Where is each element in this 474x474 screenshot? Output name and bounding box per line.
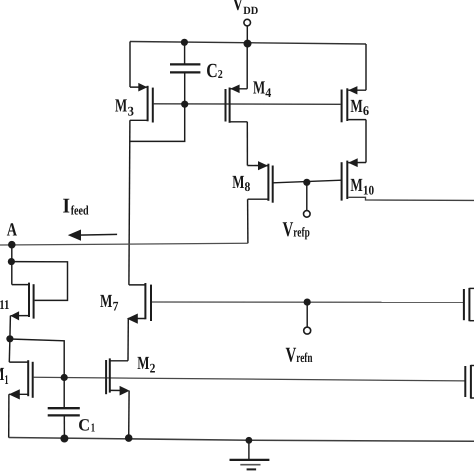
svg-text:V: V xyxy=(286,342,297,366)
svg-text:M: M xyxy=(232,173,244,193)
svg-text:I: I xyxy=(63,193,71,217)
svg-text:feed: feed xyxy=(71,203,90,218)
capacitor C2 xyxy=(170,42,200,104)
svg-text:M: M xyxy=(350,176,362,196)
svg-text:4: 4 xyxy=(265,85,271,100)
transistor M4 xyxy=(226,44,248,166)
svg-text:2: 2 xyxy=(150,360,156,375)
svg-text:refp: refp xyxy=(293,225,310,240)
wire M3 drain to M7 xyxy=(129,120,130,285)
wire Vrefn stem xyxy=(306,302,308,327)
label Vrefn xyxy=(286,342,313,366)
svg-text:A: A xyxy=(7,221,18,241)
wire gate-drain tie xyxy=(130,104,185,141)
wire node A horizontal xyxy=(0,243,248,245)
node C1 bottom junction xyxy=(60,435,68,443)
terminal Vrefn xyxy=(304,327,311,334)
svg-text:M: M xyxy=(137,354,149,374)
svg-text:3: 3 xyxy=(128,103,135,118)
ground xyxy=(230,440,270,469)
svg-text:C: C xyxy=(78,416,90,435)
node C1 junction xyxy=(61,374,68,381)
svg-text:C: C xyxy=(206,60,218,82)
svg-text:refn: refn xyxy=(296,350,313,365)
svg-text:M: M xyxy=(350,97,362,117)
svg-text:1: 1 xyxy=(4,372,8,387)
node Vrefn junction xyxy=(304,299,311,306)
wire M11 source to gate node xyxy=(10,339,64,378)
label A xyxy=(7,221,18,241)
label M7 xyxy=(100,292,119,313)
svg-text:M: M xyxy=(115,97,127,117)
transistor M7 xyxy=(127,283,151,361)
node VDD rail junction xyxy=(244,40,252,48)
label M8 xyxy=(232,173,250,194)
label M10 xyxy=(350,176,374,198)
label M6 xyxy=(350,97,369,118)
transistor M1 xyxy=(9,339,33,438)
label M2 xyxy=(137,354,155,375)
svg-text:7: 7 xyxy=(113,298,119,313)
svg-text:DD: DD xyxy=(243,5,258,17)
node M11 source junction xyxy=(6,335,13,342)
label Ifeed xyxy=(63,193,90,217)
svg-text:2: 2 xyxy=(218,67,223,81)
capacitor C1 xyxy=(48,378,80,439)
wire Vrefp stem xyxy=(306,182,308,210)
svg-text:1: 1 xyxy=(91,420,95,434)
label VDD xyxy=(233,0,259,17)
wire bottom rail xyxy=(9,438,474,442)
transistor M11 xyxy=(10,283,34,339)
terminal VDD xyxy=(244,19,251,26)
label M4 xyxy=(253,79,272,101)
node gate bus junction xyxy=(181,101,188,108)
transistor right bottom (partial) xyxy=(465,365,474,399)
label C2 xyxy=(206,60,223,82)
transistor right top (partial) xyxy=(464,288,474,321)
terminal Vrefp xyxy=(304,211,311,218)
transistor M10 xyxy=(342,158,474,200)
node C2 rail junction xyxy=(181,39,188,46)
wire VDD top rail xyxy=(130,42,366,45)
transistor M6 xyxy=(342,44,366,163)
wire gate bus M3-M4-M6 xyxy=(154,103,341,106)
node M2 source junction xyxy=(125,434,133,442)
svg-text:8: 8 xyxy=(245,179,251,194)
wire A vertical xyxy=(11,245,13,285)
wire M11 gate loop xyxy=(12,262,68,301)
node ground junction xyxy=(246,437,253,444)
node Vrefp junction xyxy=(303,179,310,186)
label Vrefp xyxy=(283,217,310,241)
node A xyxy=(8,241,16,249)
wire M7 gate bus xyxy=(152,301,464,303)
svg-text:M: M xyxy=(253,79,265,99)
label M3 xyxy=(115,97,134,119)
label M1 xyxy=(0,365,9,387)
svg-text:11: 11 xyxy=(0,297,9,312)
label M11 xyxy=(0,290,9,312)
svg-text:V: V xyxy=(233,0,244,15)
svg-text:M: M xyxy=(100,292,112,312)
wire gate bus M1-M2-right xyxy=(34,377,465,381)
svg-text:V: V xyxy=(283,217,294,241)
wire VDD stem xyxy=(246,26,248,44)
arrow Ifeed xyxy=(68,230,117,241)
svg-text:6: 6 xyxy=(363,103,370,118)
label C1 xyxy=(78,416,95,435)
transistor M2 xyxy=(106,358,130,438)
svg-text:10: 10 xyxy=(363,183,375,198)
node M11 gate junction xyxy=(8,258,15,265)
transistor M8 xyxy=(247,161,341,243)
transistor M3 xyxy=(130,42,153,123)
